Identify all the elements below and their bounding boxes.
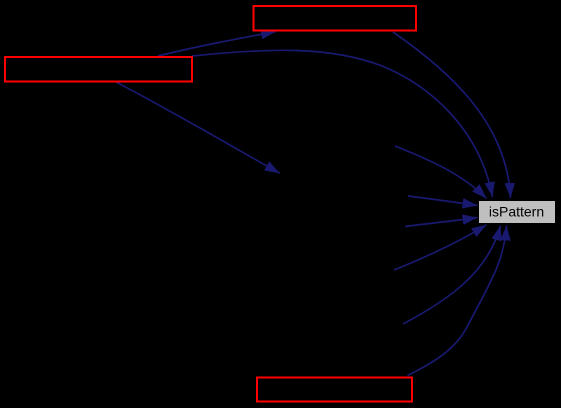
edge: hidden node 2 to isPattern (enters left edge upper) [408, 196, 478, 206]
edge: left caller box to top caller box [158, 32, 276, 57]
svg-text:isPattern: isPattern [489, 204, 544, 220]
edge: hidden node 5 to isPattern (enters bottom edge) [403, 226, 501, 325]
node: top caller box (red, truncated label) [254, 6, 417, 31]
edge: left caller box arcing to isPattern (enters top edge) [192, 50, 493, 197]
node: bottom caller box (red, truncated label) [257, 378, 412, 402]
edge: hidden node 3 to isPattern (enters left edge lower) [405, 218, 478, 227]
node: left caller box (red, truncated label) [5, 57, 192, 82]
edge: hidden node 1 to isPattern (enters top-left corner) [395, 146, 487, 199]
edge: bottom caller box arcing to isPattern (enters bottom edge right) [408, 226, 507, 376]
edge: left caller box to hidden middle node [116, 82, 280, 173]
node: isPattern (current function, grey) [479, 201, 556, 224]
edge: top caller box arcing to isPattern (enters top edge) [393, 32, 511, 198]
edge: hidden node 4 to isPattern (enters bottom edge left) [394, 225, 487, 270]
